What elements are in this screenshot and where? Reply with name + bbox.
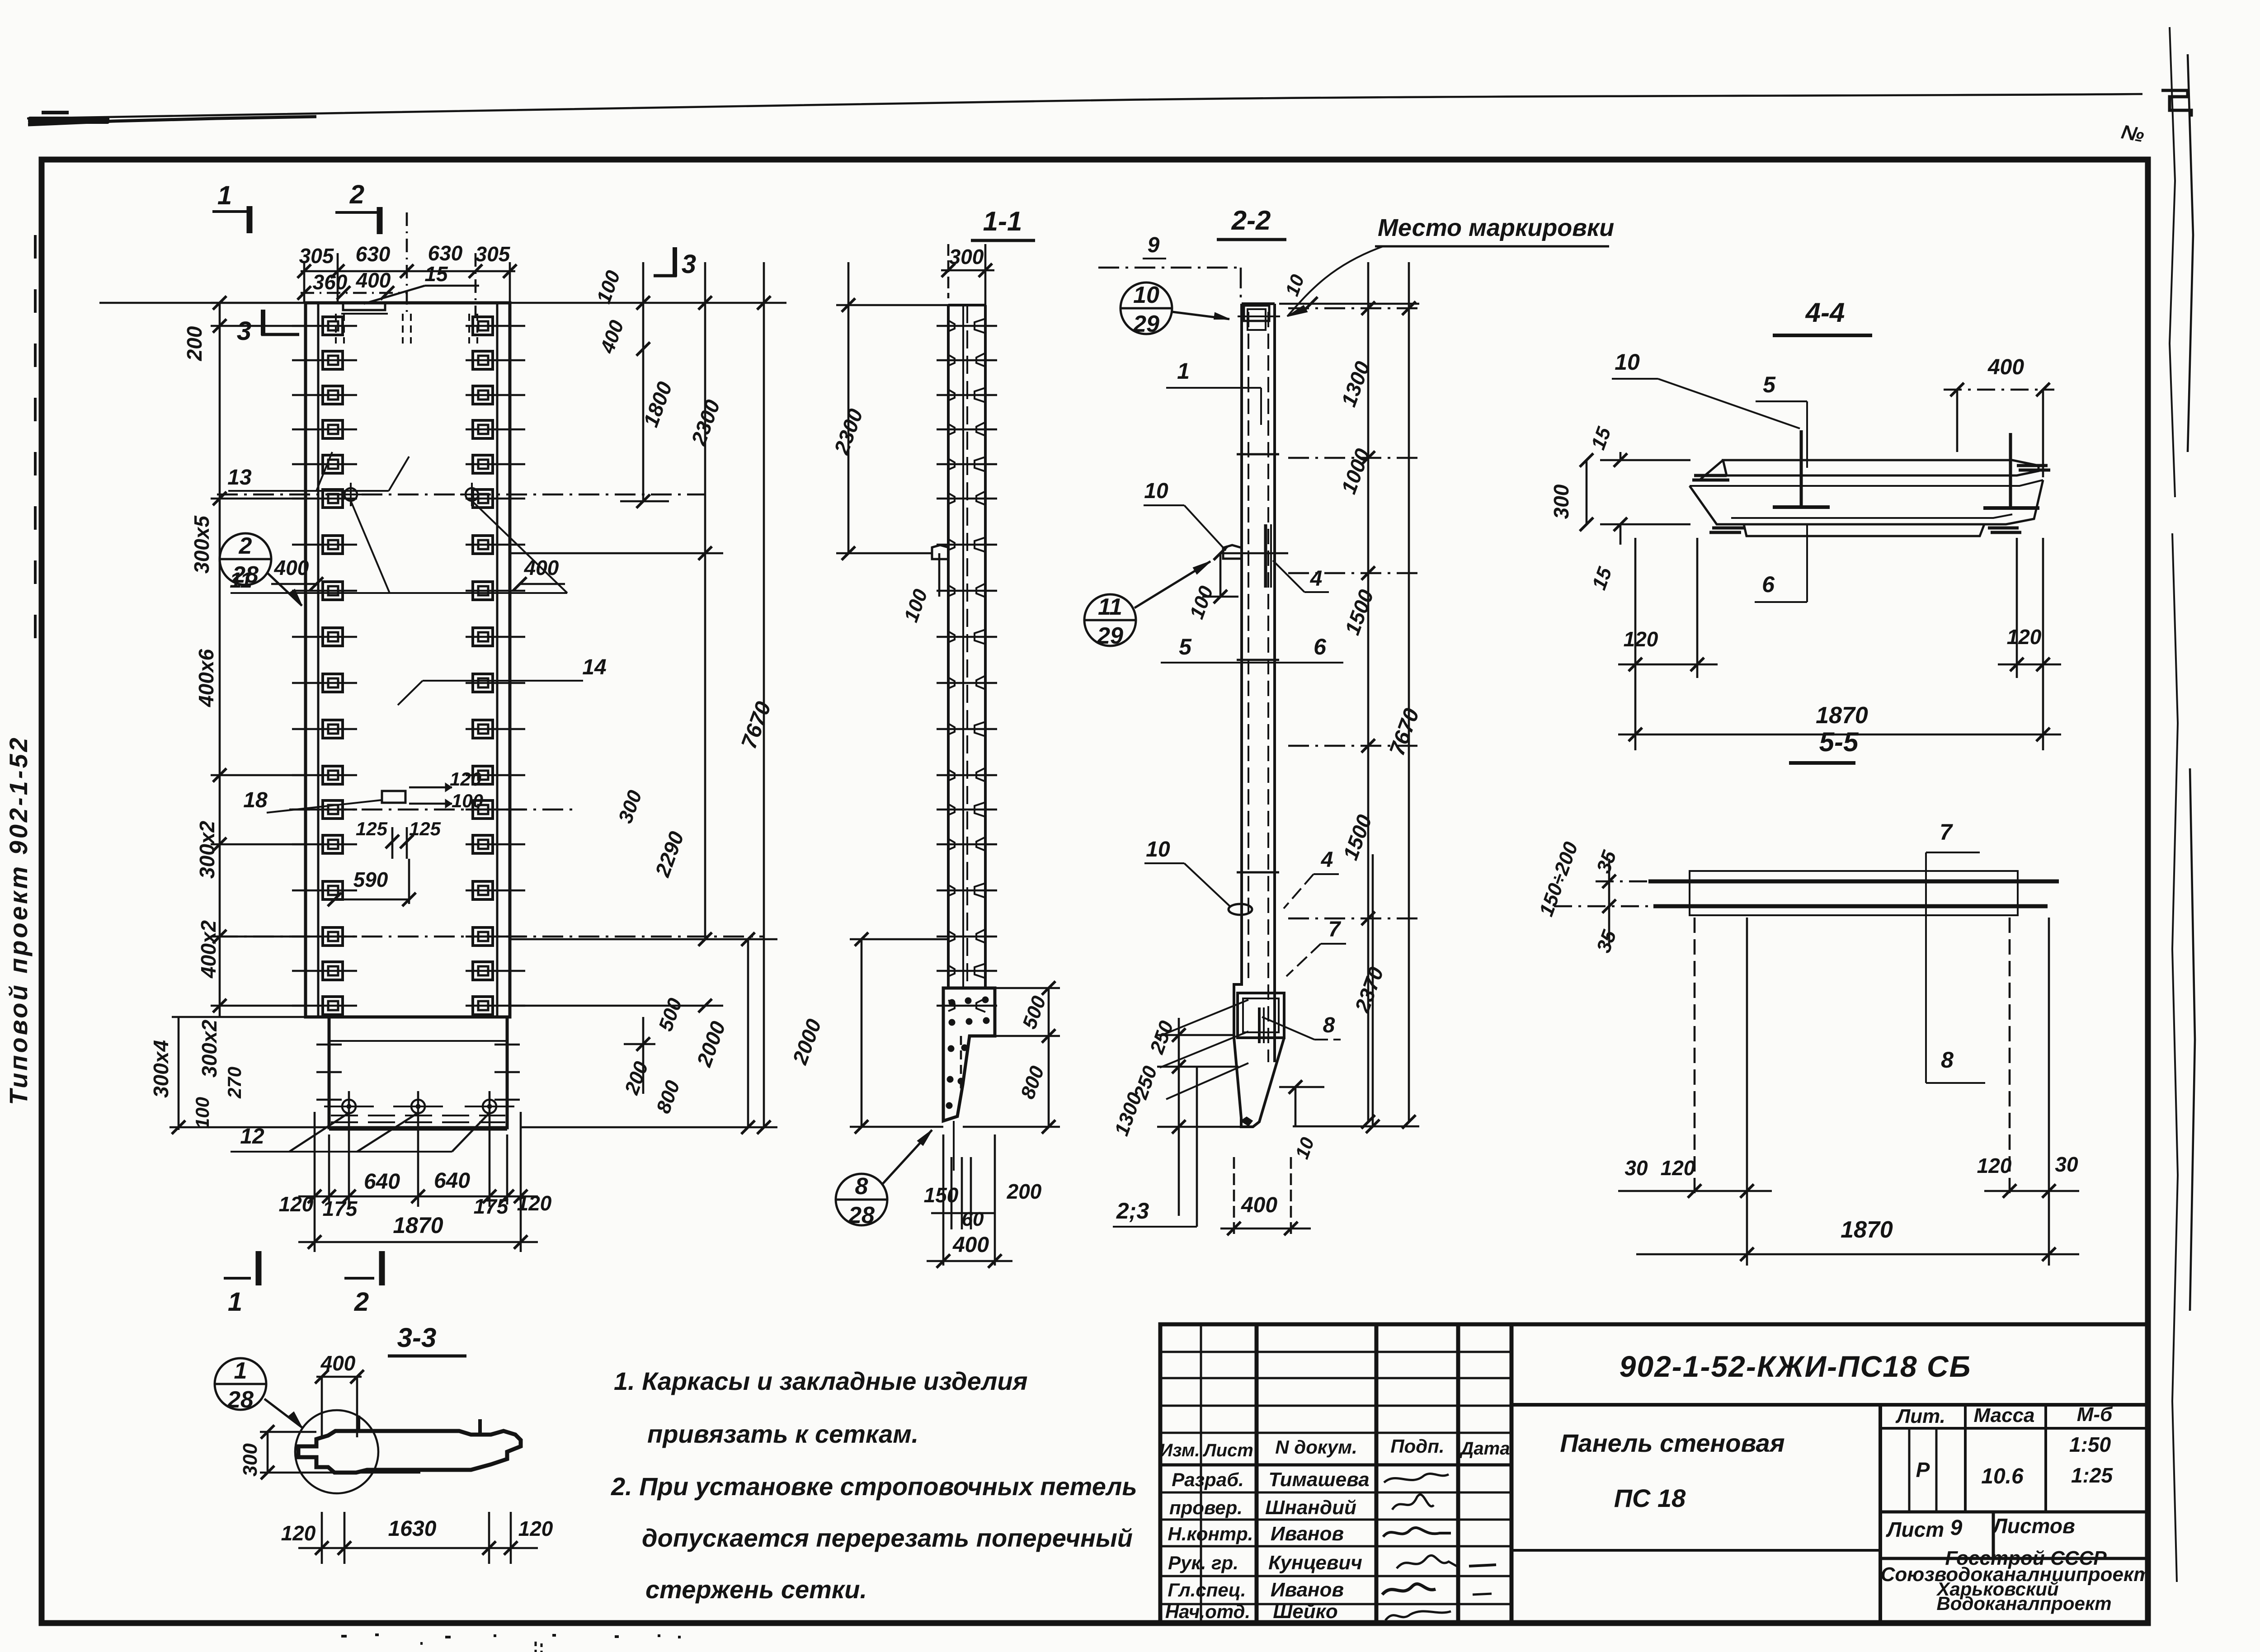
svg-text:300х2: 300х2 [195,821,219,879]
left chain extension lines [211,302,306,304]
svg-text:100: 100 [452,790,483,811]
svg-text:М-б: М-б [2077,1403,2113,1426]
svg-text:640: 640 [434,1169,470,1193]
svg-text:300: 300 [1549,484,1573,519]
svg-text:28: 28 [848,1202,875,1228]
detail balloon 10/29 [1121,282,1172,334]
svg-text:9: 9 [1950,1516,1963,1540]
svg-text:30: 30 [1624,1156,1648,1180]
3-3 pins [357,1416,360,1432]
vertical folding dashes left margin [34,235,37,259]
svg-text:6: 6 [1762,572,1775,597]
svg-text:10: 10 [1146,838,1170,861]
svg-text:Лист: Лист [1202,1440,1253,1460]
svg-text:5: 5 [1179,634,1192,659]
detail balloon 8/28 with arrow [836,1174,887,1225]
lit sub cells [1880,1511,2148,1514]
1-1 dim 2300 [847,262,850,553]
hook row tick lines [292,325,357,327]
svg-text:400: 400 [1987,355,2024,379]
svg-text:305: 305 [476,242,511,266]
svg-text:1870: 1870 [393,1213,443,1238]
2-2 top hook assembly [1244,306,1269,321]
svg-text:300х2: 300х2 [198,1020,221,1078]
svg-text:902-1-52-КЖИ-ПС18 СБ: 902-1-52-КЖИ-ПС18 СБ [1620,1350,1972,1383]
svg-text:1: 1 [1177,358,1190,384]
svg-text:8: 8 [1941,1047,1954,1073]
svg-text:допускается перерезать попереч: допускается перерезать поперечный [642,1524,1133,1552]
svg-text:Гл.спец.: Гл.спец. [1168,1579,1246,1600]
svg-text:120: 120 [1661,1156,1695,1180]
scan streak top [27,94,2142,118]
signature dashes in date column [1469,1565,1496,1566]
section cut flag 3 (top-right) [673,247,677,277]
svg-text:400: 400 [952,1233,989,1257]
svg-text:100: 100 [192,1097,213,1129]
svg-text:400: 400 [356,268,391,292]
svg-text:Шейко: Шейко [1273,1600,1338,1623]
svg-text:2;3: 2;3 [1116,1198,1149,1224]
section cut flag 1 (bottom) [224,1277,251,1280]
signatures scribbles [1384,1473,1449,1483]
title block revision table verticals [1200,1324,1202,1623]
svg-text:ПС 18: ПС 18 [1614,1484,1686,1512]
svg-text:3-3: 3-3 [397,1323,437,1353]
1-1 block inner line [953,1121,955,1171]
3-3 bottom dim 120 1630 120 [298,1547,316,1549]
label 18 with leader and slot [382,791,405,803]
inner bar item 4 [1264,524,1267,588]
svg-text:10: 10 [1133,282,1159,308]
section cut flag 2 (bottom) [344,1277,374,1280]
detail balloon 11/29 with arrow [1084,594,1136,646]
svg-text:120: 120 [450,768,481,790]
4-4 end anchor hatch right [2017,466,2050,470]
2-2 mid joints [1237,453,1279,456]
svg-text:270: 270 [224,1067,245,1099]
2-2 bottom dims 250 250 1300 [1178,1018,1180,1216]
svg-text:Иванов: Иванов [1271,1523,1344,1545]
svg-text:11: 11 [1098,594,1122,620]
title block outer box [1160,1324,2148,1623]
1-1 dims 500 800 right of block [1048,988,1050,1127]
5-5 upper bar [1648,880,2059,884]
svg-text:175: 175 [474,1195,509,1218]
dim 7670 full height [763,262,765,1127]
svg-text:18: 18 [243,788,268,812]
rebar hooks right column [473,317,493,335]
svg-text:2: 2 [239,533,252,559]
svg-text:Лит.: Лит. [1895,1405,1945,1427]
svg-text:1: 1 [217,181,232,210]
document name cell [1511,1549,1880,1552]
svg-text:590: 590 [353,868,388,891]
1-1 lifting socket loop left [932,545,948,559]
1-1 hook trapezoids and ticks [937,325,997,327]
4-4 pin right [2009,433,2012,507]
revision table horizontal rules [1160,1351,1511,1353]
svg-text:360: 360 [313,270,348,294]
lifting loops (item 12) [342,1100,356,1113]
svg-text:Подп.: Подп. [1390,1435,1444,1457]
elevation top dimension row 305-630-630-305 [301,270,515,273]
svg-text:3: 3 [682,249,696,279]
4-4 dim 300 left [1586,460,1588,524]
svg-text:Рук. гр.: Рук. гр. [1168,1552,1238,1573]
svg-text:120: 120 [518,1517,553,1540]
elevation top dimension row 360-400 [301,292,407,294]
svg-text:1. Каркасы и закладные изделия: 1. Каркасы и закладные изделия [614,1367,1028,1395]
elevation lower part outline [329,1017,507,1128]
elevation right dims 100 400 1800 2300 [510,302,786,304]
svg-text:Масса: Масса [1973,1404,2034,1426]
2-2 bottom loop item 10 [1229,904,1252,915]
svg-text:1: 1 [234,1358,247,1384]
svg-text:6: 6 [1314,634,1327,659]
2-2 embedded channel (items 7,8) [1238,993,1284,1038]
scan mark top-right [2161,90,2191,117]
svg-text:№: № [2119,121,2146,146]
svg-text:Типовой проект 902-1-52: Типовой проект 902-1-52 [4,735,33,1105]
svg-text:1:50: 1:50 [2069,1433,2111,1456]
scan specks below bottom frame [341,1635,347,1638]
1-1 dim 2000 [861,939,863,1127]
svg-text:Нач.отд.: Нач.отд. [1165,1601,1250,1622]
svg-text:Р: Р [1916,1458,1930,1482]
lower part edge ticks [316,1044,342,1046]
svg-text:4-4: 4-4 [1805,297,1845,328]
svg-text:175: 175 [323,1197,358,1220]
svg-text:Изм.: Изм. [1159,1440,1200,1460]
svg-text:15: 15 [424,262,448,286]
3-3 detail circle [295,1410,378,1493]
svg-text:провер.: провер. [1169,1497,1243,1518]
mesh lap dashed strips (item 13) [335,314,337,344]
svg-text:2: 2 [349,180,364,209]
svg-text:2. При установке строповочных: 2. При установке строповочных петель [611,1472,1137,1501]
svg-text:1: 1 [228,1287,242,1317]
svg-text:1630: 1630 [388,1517,437,1541]
bottom dim row 120 175 640 640 175 120 [314,1112,316,1252]
3-3 dim 300 left [267,1432,269,1473]
2-2 taper leader hatch lines [1160,1000,1248,1036]
svg-text:Разраб.: Разраб. [1172,1469,1244,1490]
svg-text:120: 120 [1624,627,1658,651]
svg-text:8: 8 [855,1173,868,1200]
svg-text:Место маркировки: Место маркировки [1378,214,1614,241]
svg-text:2: 2 [354,1287,369,1317]
lifting socket circles (item 11) [344,488,357,501]
svg-text:200: 200 [183,326,206,361]
svg-text:1870: 1870 [1816,702,1868,729]
svg-text:8: 8 [1323,1013,1335,1037]
svg-text:3: 3 [237,316,251,346]
document number cell [1511,1403,2148,1407]
svg-text:630: 630 [356,242,391,266]
list row [1880,1557,2148,1560]
5-5 extension verticals [1694,918,1696,1198]
3-3 panel cross-section outline [298,1431,521,1473]
svg-text:Листов: Листов [1992,1514,2075,1538]
svg-text:29: 29 [1133,311,1159,337]
4-4 end anchor hatch left [1692,475,1729,480]
svg-text:10: 10 [1144,479,1168,503]
svg-text:14: 14 [582,655,606,679]
svg-text:Водоканалпроект: Водоканалпроект [1936,1593,2111,1614]
svg-text:N докум.: N докум. [1275,1436,1357,1458]
svg-text:10.6: 10.6 [1981,1464,2024,1488]
svg-text:120: 120 [517,1191,552,1215]
svg-text:125: 125 [356,818,388,839]
svg-text:640: 640 [364,1170,400,1194]
svg-text:Тимашева: Тимашева [1268,1468,1369,1491]
svg-text:7: 7 [1328,918,1342,941]
svg-text:привязать к сеткам.: привязать к сеткам. [647,1420,918,1448]
section cut flag 2 (top) [335,211,380,214]
svg-text:13: 13 [227,466,252,489]
svg-text:стержень сетки.: стержень сетки. [645,1575,867,1604]
rebar hooks left column [323,317,343,335]
svg-text:400: 400 [1241,1193,1277,1217]
section cut flag 3 (top-left) [261,310,265,335]
svg-text:60: 60 [962,1208,984,1230]
2-2 top-right dim 10 [1279,303,1419,305]
svg-text:400х6: 400х6 [194,649,218,707]
4-4 pin left (item 10) [1800,430,1803,506]
2-2 dim 2370 [1372,854,1374,1126]
svg-text:120: 120 [279,1192,314,1216]
svg-text:400: 400 [524,556,559,579]
svg-text:12: 12 [240,1125,264,1148]
axis dash-dot line through lifting-socket row [217,494,705,496]
svg-text:150: 150 [924,1183,959,1207]
lit massa mb header [1880,1427,2148,1430]
svg-text:Кунцевич: Кунцевич [1268,1552,1362,1574]
svg-text:400х2: 400х2 [197,920,220,979]
svg-text:1870: 1870 [1841,1217,1893,1243]
svg-text:5: 5 [1763,372,1776,397]
svg-text:2-2: 2-2 [1231,205,1271,235]
svg-text:200: 200 [1007,1180,1042,1203]
svg-text:4: 4 [1321,848,1333,872]
panel inner edge lines [317,303,320,1017]
axis dash-dot line lower [217,936,764,938]
elevation top edge extension line [99,302,306,304]
section cut flag 1 (top) [212,210,250,213]
svg-text:300х5: 300х5 [190,515,213,574]
svg-text:1-1: 1-1 [983,206,1022,236]
elevation panel outline (upper part) [306,303,510,1017]
svg-text:9: 9 [1148,233,1160,257]
svg-text:120: 120 [281,1521,316,1545]
1-1 footing block [943,988,995,1121]
svg-text:7: 7 [1940,819,1953,845]
svg-text:29: 29 [1097,623,1123,649]
bottom dim 1870 [298,1241,538,1243]
svg-text:300х4: 300х4 [149,1040,173,1098]
svg-text:28: 28 [232,562,259,588]
1-1 inner double line [962,305,964,988]
svg-text:400: 400 [274,556,309,579]
svg-text:1:25: 1:25 [2071,1464,2113,1487]
svg-text:28: 28 [227,1387,254,1413]
extension verticals above panel [303,262,306,302]
4-4 slab outline [1723,460,2039,475]
svg-text:4: 4 [1310,567,1323,591]
svg-text:630: 630 [428,241,463,265]
svg-text:300: 300 [239,1443,261,1477]
2-2 loop left (item 10) [1223,545,1242,559]
1-1 column outline [948,304,985,306]
detail balloon 2/28 with arrow [220,533,271,585]
svg-text:5-5: 5-5 [1819,727,1859,757]
lower part dashed lines [331,1115,505,1116]
svg-text:Дата: Дата [1460,1439,1510,1459]
svg-text:30: 30 [2055,1153,2078,1176]
2-2 right dim chain [1367,262,1370,1122]
svg-text:Панель стеновая: Панель стеновая [1560,1429,1784,1457]
svg-text:Иванов: Иванов [1271,1579,1344,1601]
marking recess notch at panel top [343,304,385,310]
1-1 block rebar dots [949,1000,955,1005]
svg-text:10: 10 [1615,349,1640,375]
svg-text:Лист: Лист [1886,1518,1944,1541]
2-2 column outline [1242,302,1275,305]
svg-text:120: 120 [2007,625,2042,649]
5-5 mesh outline dashed [1690,871,2018,915]
2-2 bottom dim 10 [1295,1087,1297,1126]
4-4 dims 120 bottom [1634,538,1637,678]
elevation left dimension chain [219,303,221,1017]
scan lines right margin [2170,27,2175,497]
svg-text:Н.контр.: Н.контр. [1168,1523,1253,1544]
2-2 lower profile [1234,972,1284,1127]
svg-text:Шнандий: Шнандий [1265,1497,1356,1519]
detail balloon 1/28 [215,1358,266,1410]
svg-text:120: 120 [1977,1154,2012,1177]
5-5 lower bar [1653,904,2048,908]
